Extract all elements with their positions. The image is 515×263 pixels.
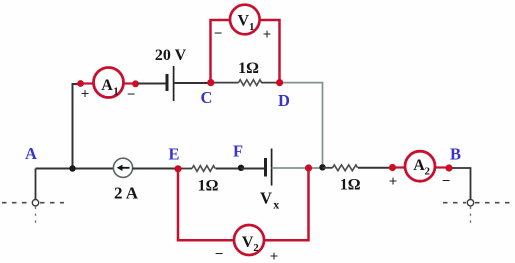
svg-text:+: + — [263, 27, 272, 43]
wire A1 left stub — [81, 82, 95, 84]
svg-text:1Ω: 1Ω — [238, 60, 259, 77]
wire E to resistor R2 — [181, 168, 192, 170]
battery 20V long plate — [173, 66, 175, 101]
node C dot — [207, 79, 214, 86]
wire current source to node E — [133, 168, 179, 170]
ammeter A2 — [405, 151, 435, 181]
wire resistor R2 to node F — [216, 168, 242, 170]
svg-text:+: + — [389, 174, 398, 190]
svg-text:V: V — [260, 189, 272, 208]
svg-text:A: A — [413, 157, 425, 174]
wire A2 left stub — [393, 166, 406, 168]
voltmeter V1 — [230, 5, 260, 35]
svg-text:V: V — [238, 13, 250, 30]
wire F to battery Vx — [241, 168, 265, 170]
wire red V2 left lead from node E — [178, 170, 234, 240]
terminal left (open circle) — [32, 169, 38, 206]
node F dot — [238, 165, 244, 171]
node E dot — [174, 165, 181, 172]
node D dot — [276, 79, 283, 86]
svg-text:+: + — [270, 249, 279, 263]
ammeter A1 right terminal dot — [132, 80, 139, 87]
svg-text:−: − — [214, 26, 223, 42]
svg-text:E: E — [168, 144, 179, 163]
ammeter A1 — [94, 68, 124, 98]
battery Vx short plate — [264, 158, 267, 177]
svg-text:1Ω: 1Ω — [340, 176, 361, 193]
junction node dot left — [69, 165, 75, 171]
wire D to right corner down to main rail — [283, 83, 323, 166]
svg-text:V: V — [242, 234, 254, 251]
svg-text:1: 1 — [113, 85, 119, 97]
dotted lead left vertical — [35, 207, 37, 227]
wire red V1 right lead from node D — [260, 20, 280, 83]
wire battery to node C — [174, 82, 211, 84]
wire battery Vx to junction — [272, 167, 323, 169]
wire A1 to battery — [138, 83, 166, 85]
ammeter A1 left terminal dot — [77, 80, 84, 87]
voltmeter V2 — [234, 225, 264, 255]
svg-text:x: x — [273, 198, 279, 212]
svg-text:+: + — [81, 87, 90, 103]
current source 2A — [113, 158, 132, 177]
svg-text:−: − — [442, 173, 451, 189]
resistor R3 1ohm — [333, 165, 358, 171]
svg-text:B: B — [450, 145, 461, 164]
svg-text:−: − — [215, 246, 224, 262]
battery 20V short plate — [166, 74, 169, 91]
ammeter A2 left terminal dot — [389, 164, 396, 171]
wire A1 right stub — [123, 82, 136, 84]
resistor R1 1ohm (C-D) — [239, 80, 262, 86]
wire main rail from corner A to current source — [36, 168, 114, 170]
svg-text:2 A: 2 A — [114, 184, 139, 203]
battery Vx long plate — [271, 149, 273, 186]
svg-text:1Ω: 1Ω — [198, 178, 219, 195]
wire top-left branch corner — [73, 84, 82, 169]
node dot red (V2 tap) — [305, 164, 312, 171]
junction node dot right — [319, 164, 325, 170]
svg-text:C: C — [201, 88, 213, 107]
wire resistor R3 to ammeter A2 — [358, 167, 393, 169]
wire junction to resistor R3 — [323, 167, 333, 169]
terminal right (open circle) — [467, 200, 473, 206]
svg-text:A: A — [25, 144, 37, 163]
svg-text:F: F — [233, 141, 243, 160]
wire red V2 right lead from node after Vx — [264, 170, 309, 240]
dashed lead right horizontal — [443, 202, 466, 204]
wire C to resistor R1 — [214, 82, 239, 84]
svg-text:2: 2 — [253, 242, 259, 254]
svg-text:−: − — [127, 87, 136, 103]
svg-text:D: D — [278, 91, 290, 110]
dotted lead right vertical — [470, 207, 472, 227]
label Vx — [260, 189, 279, 212]
svg-text:20 V: 20 V — [155, 47, 187, 64]
wire resistor R1 to node D — [261, 82, 279, 84]
ammeter A2 right terminal dot — [445, 164, 452, 171]
wire red V1 left lead from node C — [211, 20, 231, 83]
svg-text:2: 2 — [425, 165, 431, 177]
wire A2 right stub — [435, 166, 450, 168]
svg-text:1: 1 — [249, 21, 255, 33]
resistor R2 1ohm (E-F) — [192, 166, 215, 172]
wire A2 to corner B down to terminal — [452, 168, 471, 200]
svg-text:A: A — [101, 77, 113, 94]
dashed lead left horizontal — [2, 202, 31, 204]
